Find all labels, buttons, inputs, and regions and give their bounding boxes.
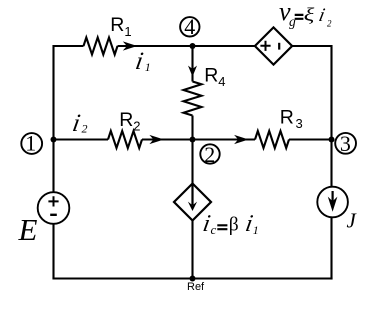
node circle 3 xyxy=(335,133,356,154)
minus sign in E xyxy=(50,214,57,216)
wire right vertical below J source xyxy=(330,217,332,279)
svg-text:R: R xyxy=(280,106,294,128)
wire controlled current source to bottom wire xyxy=(191,221,193,279)
svg-text:β: β xyxy=(229,215,239,236)
junction node dot at node 4 xyxy=(190,43,196,49)
svg-text:1: 1 xyxy=(25,130,36,155)
label i1 xyxy=(133,48,145,75)
svg-text:2: 2 xyxy=(204,142,215,167)
junction node dot at Ref xyxy=(190,276,196,282)
wire bottom horizontal xyxy=(52,277,332,279)
plus sign in diamond xyxy=(260,41,270,51)
junction node dot at node 2 xyxy=(190,137,196,143)
resistor R3 xyxy=(255,131,289,148)
node circle 2 xyxy=(200,144,219,163)
svg-text:3: 3 xyxy=(340,131,351,156)
current arrow into R4 xyxy=(188,66,197,77)
svg-text:2: 2 xyxy=(327,18,332,28)
svg-text:4: 4 xyxy=(184,14,195,39)
svg-text:2: 2 xyxy=(82,122,88,136)
svg-text:3: 3 xyxy=(296,116,303,131)
node circle 4 xyxy=(180,17,199,36)
label ic = beta i1 xyxy=(201,210,212,237)
current arrow toward R3 xyxy=(234,135,249,144)
resistor R4 xyxy=(184,82,202,116)
svg-text:R: R xyxy=(119,109,133,131)
svg-text:ξ: ξ xyxy=(304,6,315,26)
label i2 xyxy=(70,110,82,137)
wire R4 to node 2 xyxy=(191,116,193,140)
svg-text:2: 2 xyxy=(133,119,140,134)
wire R3 to node 3 xyxy=(289,138,332,140)
voltage source E circle xyxy=(38,192,70,224)
current arrow after R2 xyxy=(149,135,164,144)
current arrow i1 on top wire xyxy=(123,41,138,50)
arrow inside J xyxy=(332,191,334,203)
controlled current source diamond (ic) xyxy=(174,184,211,221)
svg-text:E: E xyxy=(18,212,38,247)
svg-text:1: 1 xyxy=(145,60,151,74)
wire node 4 down to R4 xyxy=(191,46,193,82)
resistor R2 xyxy=(108,131,142,148)
arrow inside controlled source xyxy=(191,184,193,206)
wire middle row: node1 to R2 xyxy=(54,138,109,140)
current source J circle xyxy=(317,187,348,218)
junction node dot at node 1 xyxy=(51,137,57,143)
junction node dot at node 3 xyxy=(329,137,335,143)
plus sign in E xyxy=(48,196,58,206)
wire node 2 to R3 xyxy=(193,138,256,140)
svg-text:c: c xyxy=(211,222,217,237)
svg-text:1: 1 xyxy=(124,24,131,39)
wire E source to bottom-left corner xyxy=(52,224,54,279)
resistor R1 xyxy=(84,38,118,55)
wire right vertical node3 to J source xyxy=(330,186,332,188)
svg-text:R: R xyxy=(110,14,124,36)
wire diamond source to top-right corner and down to node 3 xyxy=(292,46,331,187)
wire top-left horizontal (node1 top to R1) xyxy=(54,45,84,47)
svg-text:4: 4 xyxy=(218,74,225,89)
wire node 2 down to controlled current source xyxy=(191,140,193,184)
svg-text:1: 1 xyxy=(253,223,259,237)
svg-text:g: g xyxy=(289,14,296,29)
wire R2 to node 2 xyxy=(142,138,193,140)
svg-text:Ref: Ref xyxy=(187,281,205,293)
wire left vertical (top corner to E source) xyxy=(52,45,54,192)
svg-text:R: R xyxy=(204,65,218,87)
controlled voltage source diamond (vg) xyxy=(255,27,292,64)
node circle 1 xyxy=(21,133,42,154)
wire R1 to diamond source xyxy=(118,45,255,47)
minus tick in diamond xyxy=(278,43,280,50)
